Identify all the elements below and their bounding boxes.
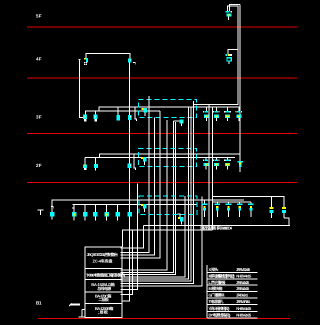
legend row 4 [208,286,258,291]
legend vline [206,265,208,318]
wire valve feed [213,196,282,198]
floor line 2F [27,182,297,184]
svg-text:二层板: 二层板 [98,297,110,302]
feeder wire f1 [120,226,143,248]
wire roof riser inner [194,6,238,105]
detector 4F r1 [203,157,210,169]
svg-text:Y 消火栓按钮 (动): Y 消火栓按钮 (动) [209,306,231,311]
trunk wire t11 [120,197,202,286]
sounder 1F s5 [104,204,109,220]
sounder 1F s7 [128,212,133,217]
svg-text:NH-BV-4x2.5: NH-BV-4x2.5 [236,306,252,311]
wire RF stem [228,16,230,20]
module 3F mid [173,119,183,126]
svg-text:ZR-BV-2x1.5: ZR-BV-2x1.5 [236,286,250,291]
trunk wire t7 [120,196,185,277]
wire 2F arrow [133,63,135,65]
svg-text:FB 手动报警按钮(带电话): FB 手动报警按钮(带电话) [209,274,236,279]
alarm 1F b3 [226,202,232,217]
panel divider 3 [85,291,122,293]
floor line 3F [27,133,297,135]
detector 3F d2 [94,111,98,122]
floor line 4F [27,77,297,79]
alarm 1F b5 [248,202,254,217]
trunk wire t3 [120,111,160,258]
svg-text:TX3016A楼层盘 接口箱(控制室内): TX3016A楼层盘 接口箱(控制室内) [86,273,126,278]
detector 3F r1 [203,107,210,121]
wire valve return [284,218,289,226]
hook 1F s2 [72,208,74,210]
wire 1F s1 drop [51,207,53,213]
zone box 4F dashed [138,149,196,167]
module 2F right [128,58,132,62]
module 3F d4 [128,115,132,120]
detector 4F d2 [94,157,98,170]
detector 4F r3 [224,157,231,169]
svg-text:5F: 5F [36,14,42,19]
svg-text:NH-BV-2x2.5: NH-BV-2x2.5 [236,313,252,318]
module RF [227,14,232,17]
floor line B1 [38,318,290,320]
wire earth link [82,308,85,310]
hook 1F s1 [51,207,53,209]
feeder wire f2 [120,184,137,290]
legend row 5 [208,293,258,298]
zone box 3F dashed [139,100,197,118]
wire 1F bus D [73,203,198,205]
isolator 4F right [225,54,232,56]
wire 3F bus B [85,110,160,112]
svg-text:L 声光警报: L 声光警报 [209,280,227,285]
detector 4F d1 [83,157,87,170]
sounder 1F s4 [93,204,98,220]
svg-text:JB-QB/GST200,控制室/台: JB-QB/GST200,控制室/台 [87,252,119,257]
svg-text:B1: B1 [36,301,42,306]
sounder 1F s1 [50,212,55,220]
detector 2F left [84,58,88,65]
wire earth drop [81,309,83,317]
svg-text:T 电话插孔: T 电话插孔 [209,299,224,304]
trunk wire t9 [120,107,191,281]
zone box 1F dashed [139,196,197,215]
module 1F mid [178,214,184,225]
panel FAS cabinet [85,247,122,317]
valve module v1 [269,197,274,218]
legend row 3 [208,280,258,285]
svg-text:DY 电源线路 (动): DY 电源线路 (动) [209,313,232,318]
wire 3F bus A [99,107,240,111]
wire 4F right branch [228,49,238,54]
detector 3F r4 [235,107,242,121]
wire 1F lower run [122,230,212,247]
wire right riser a [239,5,241,162]
svg-text:2F: 2F [36,163,42,168]
panel divider 2 [85,279,122,281]
svg-text:M 模块箱: M 模块箱 [209,286,223,291]
wire 3F arrow drop [135,107,137,121]
wire 1F bus C [52,200,244,206]
legend row 8 [208,313,258,318]
isolator RF bar [226,11,233,12]
legend row 7 [208,306,258,312]
detector 3F d3 [116,107,120,120]
svg-text:ZR-RVS-2x1.5: ZR-RVS-2x1.5 [236,267,251,272]
module 4F boxed [141,157,146,165]
detector 3F r2 [213,107,220,121]
wire earth foot [79,316,85,318]
svg-text:X 探头: X 探头 [209,267,219,272]
svg-text:NH-BV-4x1.5: NH-BV-4x1.5 [236,274,252,279]
module 3F boxed [141,108,147,116]
trunk wire t8 [120,107,188,279]
svg-text:G 广播模块: G 广播模块 [209,293,226,298]
wire mid riser a [208,105,210,226]
sounder 1F s6 [116,204,121,220]
legend row 1 [208,267,258,273]
trunk wire t10 [120,101,193,283]
wire 2F right riser to panel [122,62,130,301]
svg-text:ZR-BV-2x2.5: ZR-BV-2x2.5 [236,280,250,285]
panel divider 1 [85,268,122,270]
bus 1F bottom [143,225,290,227]
feeder wire f3 [120,230,132,295]
detector 4F r4 [237,154,243,172]
panel divider 4 [85,303,122,305]
earth bar [69,303,80,306]
trunk wire t1 [120,96,149,253]
alarm 1F b1 [202,200,208,217]
detector 3F r3 [224,107,231,121]
wire mid riser b [212,107,214,230]
wire 4F bus A [100,154,241,157]
wire 1F feed low [213,201,252,203]
detector 4F r2 [213,157,220,169]
wire 4F arrow drop [134,154,136,170]
trunk wire t4 [120,120,167,270]
wire 2F left riser [78,60,83,118]
valve module v2 [282,197,287,218]
sounder 1F s3 [83,204,88,220]
svg-text:;层板: ;层板 [98,310,109,315]
svg-text:3F: 3F [36,115,42,120]
svg-text:总线 电源: 总线 电源 [97,286,111,291]
wire roof riser outer [230,5,241,11]
module 1F boxed [141,204,147,212]
svg-text:4F: 4F [36,57,42,62]
wire 2F top run [86,54,130,59]
svg-text:ZR-BV-2x1: ZR-BV-2x1 [236,293,249,298]
wire 4F bus B [85,156,235,158]
trunk wire t2 [120,118,154,256]
alarm 1F b2 [215,202,221,217]
trunk wire t6 [120,122,175,275]
module 4F right riser [227,58,231,64]
label 1F [38,210,44,215]
svg-text:ZR-RVVP-2x1: ZR-RVVP-2x1 [236,299,251,304]
trunk wire t5 [120,121,173,272]
detector 3F d1 [83,111,87,122]
floor line roof [27,26,297,28]
module 4F d3 [128,164,132,168]
legend row 2 [208,274,258,279]
svg-text:消防控制室引来 JB-3080/CD4: 消防控制室引来 JB-3080/CD4 [200,226,233,231]
svg-text:ZC-4车库盘: ZC-4车库盘 [93,259,113,264]
sounder 1F s2 [72,204,77,220]
legend row 6 [208,299,258,305]
alarm 1F b4 [237,202,243,217]
